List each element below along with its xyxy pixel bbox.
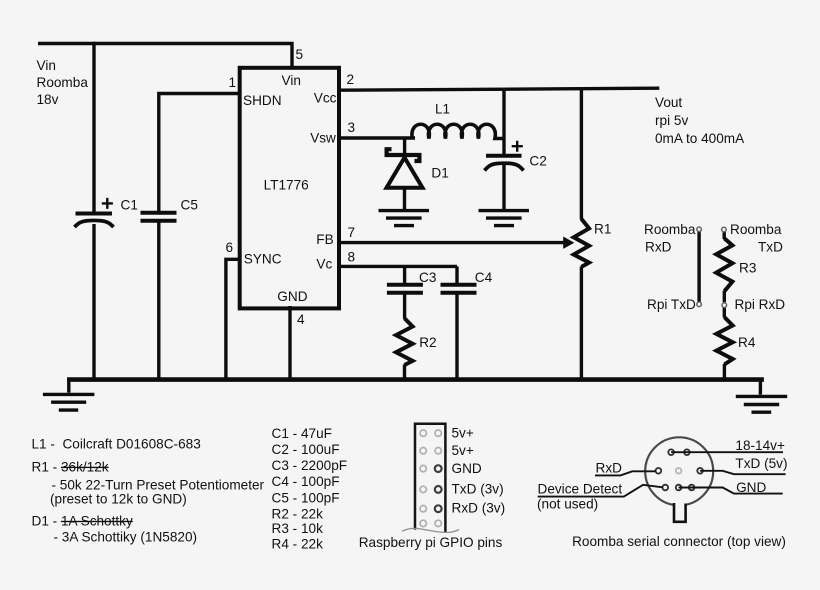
svg-text:Rpi RxD: Rpi RxD [735,297,786,312]
svg-text:Vc: Vc [316,257,332,272]
svg-text:rpi 5v: rpi 5v [655,113,688,128]
svg-text:C5: C5 [181,198,198,213]
svg-text:C1: C1 [121,198,138,213]
svg-text:SYNC: SYNC [244,252,282,267]
svg-text:GND: GND [452,461,482,476]
svg-text:Vcc: Vcc [314,90,337,105]
svg-text:TxD: TxD [758,240,783,255]
svg-text:Roomba: Roomba [730,222,782,237]
svg-text:R3: R3 [739,261,756,276]
svg-text:3: 3 [348,120,356,135]
svg-text:Device Detect: Device Detect [538,482,623,497]
svg-text:FB: FB [316,232,333,247]
svg-text:R2: R2 [419,335,436,350]
svg-text:R2 - 22k: R2 - 22k [272,506,324,521]
svg-text:Raspberry pi GPIO pins: Raspberry pi GPIO pins [359,535,503,550]
svg-text:L1 - Coilcraft D01608C-683: L1 - Coilcraft D01608C-683 [32,437,201,452]
svg-text:GND: GND [277,289,307,304]
svg-text:D1: D1 [431,165,448,180]
svg-text:Vout: Vout [655,95,682,110]
svg-text:(not used): (not used) [537,497,598,512]
svg-text:C2: C2 [529,154,546,169]
svg-text:Roomba serial connector (top v: Roomba serial connector (top view) [572,534,786,549]
svg-text:RxD: RxD [596,461,623,476]
svg-text:Vsw: Vsw [310,130,336,145]
svg-text:Rpi TxD: Rpi TxD [647,297,696,312]
svg-text:R4 - 22k: R4 - 22k [272,537,324,552]
svg-text:GND: GND [736,480,766,495]
svg-text:Vin: Vin [282,73,301,88]
svg-text:18-14v+: 18-14v+ [735,438,785,453]
svg-text:C1 - 47uF: C1 - 47uF [272,426,332,441]
svg-text:R3 - 10k: R3 - 10k [272,521,324,536]
svg-text:0mA to 400mA: 0mA to 400mA [655,131,745,146]
svg-text:(preset to 12k to GND): (preset to 12k to GND) [50,492,187,507]
svg-text:R4: R4 [738,335,756,350]
svg-text:LT1776: LT1776 [264,177,309,192]
svg-text:L1: L1 [435,102,450,117]
svg-text:Roomba: Roomba [37,75,89,90]
svg-text:Vin: Vin [37,58,56,73]
svg-text:C4: C4 [475,270,493,285]
svg-text:18v: 18v [37,92,59,107]
svg-text:R1: R1 [594,221,611,236]
svg-text:C3 - 2200pF: C3 - 2200pF [272,458,348,473]
svg-text:Roomba: Roomba [644,222,696,237]
svg-text:5: 5 [296,47,304,62]
svg-text:7: 7 [348,225,356,240]
svg-text:- 3A Schottiky (1N5820): - 3A Schottiky (1N5820) [54,530,198,545]
svg-text:4: 4 [297,312,305,327]
svg-text:1: 1 [229,75,237,90]
svg-text:TxD (5v): TxD (5v) [735,456,787,471]
svg-text:SHDN: SHDN [243,93,282,108]
svg-text:RxD: RxD [645,240,672,255]
svg-text:D1 - 1A Schottky: D1 - 1A Schottky [32,514,133,529]
svg-text:5v+: 5v+ [452,443,474,458]
svg-text:5v+: 5v+ [452,425,474,440]
svg-text:RxD (3v): RxD (3v) [452,501,506,516]
svg-text:C4 - 100pF: C4 - 100pF [272,474,340,489]
svg-text:C2 - 100uF: C2 - 100uF [272,442,340,457]
svg-text:R1 - 36k/12k: R1 - 36k/12k [32,459,109,474]
svg-text:TxD (3v): TxD (3v) [452,482,504,497]
svg-text:- 50k 22-Turn Preset Potentiom: - 50k 22-Turn Preset Potentiometer [52,477,265,492]
svg-text:2: 2 [347,72,355,87]
svg-text:C3: C3 [419,270,436,285]
svg-text:6: 6 [226,240,234,255]
svg-text:C5 - 100pF: C5 - 100pF [272,490,340,505]
svg-text:8: 8 [348,250,356,265]
